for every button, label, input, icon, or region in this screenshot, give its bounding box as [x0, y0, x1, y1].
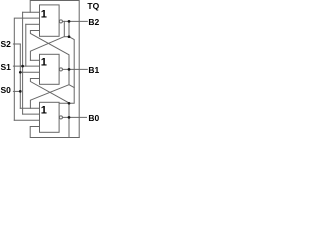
- svg-text:S0: S0: [1, 85, 12, 95]
- svg-text:1: 1: [41, 104, 47, 116]
- svg-text:B0: B0: [88, 113, 99, 123]
- svg-text:S1: S1: [1, 62, 12, 72]
- svg-text:B2: B2: [88, 17, 99, 27]
- svg-text:TQ: TQ: [87, 1, 99, 11]
- svg-text:S2: S2: [1, 39, 12, 49]
- svg-text:1: 1: [41, 56, 47, 68]
- svg-text:1: 1: [41, 8, 47, 20]
- svg-text:B1: B1: [88, 65, 99, 75]
